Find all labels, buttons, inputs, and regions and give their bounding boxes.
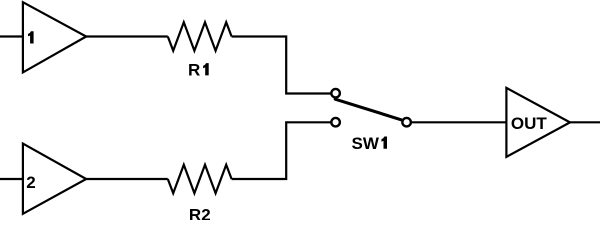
switch SW1 common contact [402, 118, 411, 127]
svg-text:R: R [188, 60, 200, 79]
op-amp buffer 1 [23, 2, 86, 72]
switch SW1 bottom throw contact [331, 118, 340, 127]
wire switch common to OUT buffer [412, 121, 506, 123]
op-amp buffer 2 [23, 144, 86, 214]
wire R2 to corner and up to switch bottom throw [232, 122, 331, 179]
label R1 [188, 60, 209, 79]
svg-text:R2: R2 [189, 205, 211, 220]
wire buffer2 output to R2 [86, 178, 168, 180]
wire input stub 2 [0, 178, 23, 180]
resistor R2 [168, 165, 232, 193]
resistor R1 [168, 22, 232, 50]
svg-text:OUT: OUT [511, 114, 548, 133]
wire input stub 1 [0, 35, 23, 37]
switch SW1 lever [335, 99, 401, 120]
wire output stub [570, 121, 600, 123]
wire R1 to corner and down to switch top throw [232, 37, 331, 94]
switch SW1 top throw contact [331, 89, 340, 98]
label 1 [28, 31, 34, 43]
op-amp OUT buffer [506, 88, 570, 157]
label SW1 [352, 134, 388, 153]
svg-text:2: 2 [26, 173, 35, 192]
wire buffer1 output to R1 [86, 35, 168, 37]
svg-text:SW: SW [352, 134, 380, 153]
